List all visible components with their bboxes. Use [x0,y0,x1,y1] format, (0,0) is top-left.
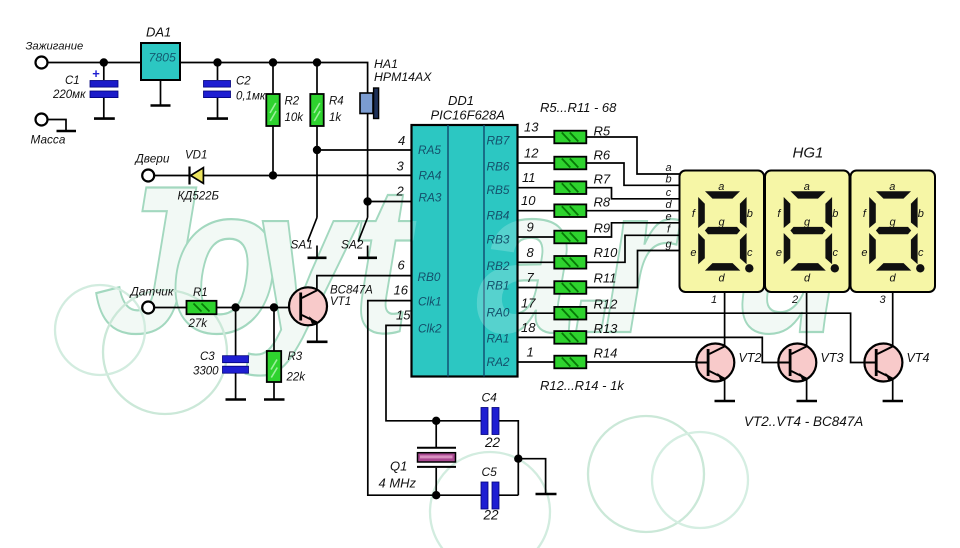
capacitor C3 [193,308,249,399]
wire R10 to segment f [586,235,679,262]
svg-text:R12: R12 [594,297,619,312]
capacitor C4 [481,391,518,496]
ground C2 [207,117,228,120]
microcontroller DD1 PIC16F628A [94,93,844,377]
resistor R8 [554,204,586,217]
node junction C4C5 ground [514,455,522,463]
wire R9 to segment e [586,223,679,237]
wire net Clk2 [386,325,481,420]
svg-text:R13: R13 [594,321,619,336]
svg-text:SA2: SA2 [341,238,364,252]
svg-text:RA2: RA2 [487,355,510,369]
svg-text:7: 7 [527,270,535,285]
node junction C3 [231,303,239,311]
resistor R3 [267,308,306,399]
ground VT3 [797,400,818,403]
wire +12V rail [48,63,368,94]
svg-text:RA4: RA4 [419,169,442,183]
svg-text:b: b [665,174,671,186]
wire SA2 upper [367,202,369,218]
svg-text:1: 1 [711,294,717,306]
svg-text:RB7: RB7 [487,134,510,148]
wire R14 to VT2 base [586,361,696,363]
svg-text:RB3: RB3 [487,233,510,247]
svg-text:R4: R4 [329,96,344,108]
svg-text:15: 15 [396,308,411,323]
ground XTAL [536,493,557,496]
wire R8 to segment d [586,210,679,212]
ground C3 [226,398,247,401]
svg-text:Clk2: Clk2 [418,322,442,336]
svg-text:4 MHz: 4 MHz [379,476,417,491]
svg-text:a: a [665,162,671,174]
capacitor C2 [204,63,266,118]
svg-text:DA1: DA1 [146,25,171,40]
resistor R14 [554,356,586,369]
ground VT1 [307,340,328,343]
ground DA1 [151,104,171,107]
svg-text:RA1: RA1 [487,332,510,346]
svg-text:C4: C4 [482,391,498,405]
svg-text:RB2: RB2 [487,259,510,273]
resistor R4 [310,63,343,151]
wire pin10 stub [518,210,555,212]
transistor VT4 [864,344,902,382]
svg-text:C1: C1 [65,75,80,87]
svg-text:8: 8 [527,245,535,260]
svg-text:27k: 27k [188,318,209,330]
wire R11 to segment g [586,251,679,288]
svg-text:Q1: Q1 [390,459,407,474]
svg-text:R6: R6 [594,148,611,163]
svg-text:12: 12 [524,146,539,161]
svg-text:R11: R11 [594,271,617,286]
svg-text:VD1: VD1 [185,150,207,162]
svg-text:1k: 1k [329,112,342,124]
svg-text:RA0: RA0 [487,306,510,320]
svg-text:BC847A: BC847A [330,285,373,297]
svg-text:e: e [665,211,671,223]
ground SA1 [308,256,327,259]
resistor R5 [554,131,586,144]
transistor VT3 [778,344,816,382]
node junction HA1-RA3 [363,197,371,205]
resistor R9 [554,231,586,244]
svg-text:22: 22 [484,435,501,450]
svg-text:17: 17 [521,296,536,311]
svg-text:SA1: SA1 [291,238,313,252]
svg-text:c: c [666,187,672,199]
svg-text:PIC16F628A: PIC16F628A [431,108,505,123]
svg-text:HG1: HG1 [793,145,824,162]
capacitor C1 [52,63,118,118]
svg-text:R8: R8 [594,195,611,210]
svg-text:3: 3 [880,294,887,306]
terminal Зажигание [26,41,84,69]
node junction R2 [269,58,277,66]
wire digit2 cathode [806,292,808,346]
svg-text:Масса: Масса [31,133,66,147]
node junction R2-RA4 [269,171,277,179]
svg-text:R5...R11 - 68: R5...R11 - 68 [540,100,617,115]
wire R5 to segment a [586,137,679,174]
svg-text:RA3: RA3 [419,191,442,205]
svg-text:RB5: RB5 [487,183,510,197]
ground VT2 [715,400,736,403]
resistor R7 [554,181,586,194]
wire ground stub XTAL [518,459,545,494]
svg-text:2: 2 [791,294,798,306]
resistor R1 [154,287,290,330]
svg-text:4: 4 [398,133,405,148]
svg-text:7805: 7805 [149,51,177,65]
svg-text:16: 16 [394,283,409,298]
wire SA1 upper [316,150,318,218]
resistor R6 [554,157,586,170]
wire pin17 stub [518,312,555,314]
wire net RA4 [273,174,412,176]
svg-text:Двери: Двери [134,152,170,166]
svg-text:VT3: VT3 [821,351,844,365]
svg-text:g: g [665,239,672,251]
svg-text:R14: R14 [594,346,618,361]
node junction R4-RA5 [313,146,321,154]
capacitor C5 [481,465,518,523]
svg-text:1: 1 [527,345,534,360]
svg-text:18: 18 [521,320,536,335]
diode VD1 КД522Б [154,150,273,203]
svg-text:2: 2 [396,184,405,199]
wire pin9 stub [518,236,555,238]
wire pin12 stub [518,162,555,164]
svg-text:VT1: VT1 [330,296,351,308]
resistor R10 [554,256,586,269]
svg-text:C2: C2 [236,76,251,88]
transistor VT1 BC847A [289,276,412,341]
svg-text:R9: R9 [594,221,611,236]
wire VT2 emitter [724,379,726,401]
svg-text:3300: 3300 [193,366,219,378]
svg-text:Clk1: Clk1 [418,295,442,309]
display HG1 digit1 [680,171,765,293]
svg-text:13: 13 [524,120,539,135]
wire digit3 cathode [892,292,894,346]
wire pin13 stub [518,136,555,138]
switch SA2 [341,218,368,258]
display HG1 digit2 [765,171,850,293]
svg-text:RB0: RB0 [418,270,441,284]
svg-text:RA5: RA5 [418,143,441,157]
svg-text:9: 9 [527,220,534,235]
terminal Масса [31,114,67,147]
regulator DA1 7805 [141,25,180,105]
wire net RA3 [368,201,412,203]
resistor R13 [554,331,586,344]
svg-text:HPM14AX: HPM14AX [374,70,432,84]
svg-text:+: + [92,66,100,81]
ground SA2 [358,256,377,259]
crystal Q1 4MHz [379,421,457,495]
wire R6 to segment b [586,163,679,185]
wire digit1 cathode [724,292,726,346]
ground R3 [264,398,285,401]
wire pin18 stub [518,336,555,338]
svg-text:R1: R1 [193,287,208,299]
svg-text:R2: R2 [285,96,300,108]
svg-text:VT2..VT4 - BC847A: VT2..VT4 - BC847A [744,414,863,429]
svg-text:220мк: 220мк [52,89,86,101]
svg-text:RB6: RB6 [487,160,510,174]
svg-text:R7: R7 [594,172,611,187]
terminal Датчик [129,285,174,314]
node junction C2 [213,58,221,66]
wire pin7 stub [518,287,555,289]
svg-text:R10: R10 [594,245,619,260]
svg-text:d: d [665,199,672,211]
wire pin8 stub [518,261,555,263]
wire VT4 emitter [892,379,894,401]
svg-text:VT2: VT2 [739,351,762,365]
svg-text:11: 11 [522,170,536,185]
svg-text:R12...R14 - 1k: R12...R14 - 1k [540,378,625,393]
wire pin1 stub [518,361,555,363]
svg-text:Датчик: Датчик [129,285,174,299]
switch SA1 [291,218,318,258]
resistor R11 [554,281,586,294]
svg-text:VT4: VT4 [907,351,930,365]
node junction R3 [270,303,278,311]
svg-text:R3: R3 [288,351,303,363]
wire R7 to segment c [586,188,679,199]
ground VT4 [883,400,903,403]
svg-text:RB1: RB1 [487,279,510,293]
wire R12 to VT4 base [586,313,864,362]
node junction XTAL bottom [432,491,440,499]
svg-text:DD1: DD1 [448,93,474,108]
wire R13 to VT3 base [586,337,778,362]
svg-text:КД522Б: КД522Б [178,191,220,203]
ground Масса [57,130,77,133]
svg-text:22: 22 [483,508,500,523]
ground C1 [94,117,115,120]
buzzer HA1 HPM14AX [360,57,432,202]
wire pin11 stub [518,187,555,189]
svg-text:10: 10 [521,193,536,208]
resistor R12 [554,307,586,320]
svg-text:RB4: RB4 [487,209,510,223]
display HG1 digit3 [851,171,936,293]
svg-text:HA1: HA1 [374,57,398,71]
svg-text:10k: 10k [285,112,305,124]
WATERMARK [55,143,844,548]
node junction R4 [313,58,321,66]
svg-text:22k: 22k [286,372,307,384]
svg-text:Зажигание: Зажигание [26,41,84,53]
terminal Двери [134,152,170,182]
svg-text:0,1мк: 0,1мк [236,91,266,103]
svg-text:3: 3 [397,159,405,174]
wire net RA5 [317,149,412,151]
node junction C1 [100,58,108,66]
transistor VT2 [696,344,734,382]
wire net Clk1 [368,301,481,496]
node junction XTAL top [432,417,440,425]
svg-text:C5: C5 [482,465,498,479]
svg-text:6: 6 [398,258,406,273]
svg-text:C3: C3 [200,351,215,363]
wire VT3 emitter [806,379,808,401]
resistor R2 [266,63,304,176]
